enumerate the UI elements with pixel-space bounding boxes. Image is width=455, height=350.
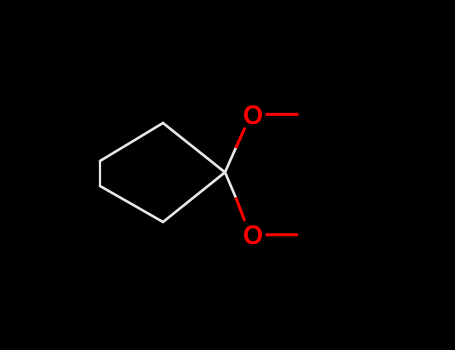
- ring bond B-C: [100, 123, 163, 161]
- ring bond D-E: [100, 186, 163, 222]
- bond O1-CH3: [267, 113, 297, 116]
- ring bond C-D: [99, 161, 101, 186]
- bond C2-O1 red half: [236, 129, 244, 147]
- bond C2-O3 red half: [236, 199, 244, 220]
- svg-text:O: O: [243, 100, 263, 130]
- bond C2-O3 white half: [225, 172, 236, 198]
- bond O3-CH3: [267, 233, 297, 236]
- bond C2-O1 white half: [225, 147, 236, 173]
- ring bond C2-B: [163, 123, 225, 172]
- ring bond E-C2: [163, 172, 225, 222]
- svg-text:O: O: [243, 220, 263, 250]
